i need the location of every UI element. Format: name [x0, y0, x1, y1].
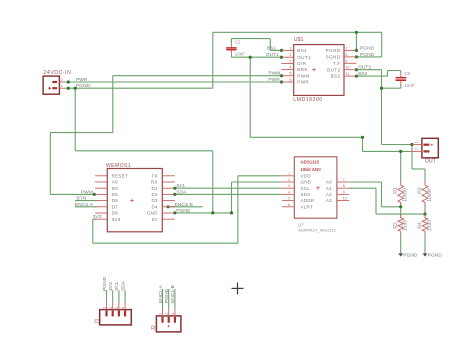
wire ENCS A stub at WEMOS D7 [75, 206, 97, 208]
pin WEMOS1 right pin TX [162, 175, 175, 177]
pin U$1 pin 11 BS2 [344, 75, 356, 77]
junction U$1 pin8 [355, 55, 358, 58]
resistor R3 10k00 [422, 181, 428, 205]
junction OUT2/C3 tee [380, 87, 383, 90]
wire BS2 up [387, 71, 389, 77]
pin ADS pin 8 A1 [337, 187, 349, 189]
pin WEMOS1 right pin D1 [162, 187, 175, 189]
svg-text:8: 8 [345, 53, 347, 57]
svg-text:10k00: 10k00 [403, 188, 409, 202]
wire PGND branch down [74, 88, 76, 151]
svg-text:3V3: 3V3 [112, 217, 121, 222]
svg-text:PGND: PGND [428, 252, 443, 258]
svg-text:PGND: PGND [76, 83, 91, 89]
wire J1 wire x=106.5 [106, 290, 108, 302]
wire J2 wire x=162.5 [162, 289, 164, 308]
svg-text:2: 2 [61, 78, 63, 82]
svg-text:ENC1-A: ENC1-A [158, 284, 164, 303]
svg-text:PGND: PGND [164, 288, 170, 303]
svg-text:5: 5 [288, 197, 290, 201]
svg-text:2: 2 [109, 307, 113, 309]
svg-text:OUT2: OUT2 [327, 67, 341, 72]
wire R2 to PGND symbol [400, 234, 402, 254]
svg-text:SDA: SDA [120, 280, 126, 291]
svg-text:10: 10 [345, 66, 349, 70]
wire BS2 to C3 top [388, 70, 401, 72]
wire A1 vertical [375, 188, 377, 214]
connector J2 [156, 316, 181, 332]
wire PGND drop to U$1 pin8 [381, 32, 383, 57]
pin U$1 pin 3 DIR [281, 63, 293, 65]
svg-text:4: 4 [121, 307, 125, 309]
wire BS1 vertical [269, 39, 271, 51]
svg-text:PGND: PGND [326, 48, 341, 53]
origin cross U$1 [312, 69, 316, 71]
svg-text:J2: J2 [151, 325, 157, 331]
wire J1 wire x=118.9 [118, 290, 120, 302]
wire PWM vertical [112, 76, 114, 133]
wire PGND drop to U$1 pin7 [355, 32, 357, 50]
pin ADS pin 3 SCL [282, 187, 294, 189]
pin ADS pin 6 ALRT [282, 206, 294, 208]
ADC U? ADS1115 [294, 157, 337, 218]
resistor R1 10k00 [398, 181, 404, 205]
pin J2 pin 3 [162, 308, 164, 316]
pin J1 pin 3 [118, 303, 120, 310]
junction OUT1 corner [361, 136, 364, 139]
svg-text:ENC1-B: ENC1-B [170, 285, 176, 303]
pin R2 top lead [400, 216, 402, 218]
svg-text:10k00: 10k00 [427, 188, 433, 202]
wire PGND up to ADS GND [231, 182, 233, 213]
pin WEMOS1 left pin A0 [95, 181, 107, 183]
pin WEMOS1 right pin RX [162, 181, 175, 183]
svg-text:1500: 1500 [403, 220, 409, 231]
pin ADS pin 1 VDD [282, 175, 294, 177]
wire BS2 from U$1 pin11 [356, 75, 387, 77]
svg-text:SDA: SDA [176, 189, 187, 195]
wire PGND top rail [213, 31, 382, 33]
svg-text:9: 9 [345, 59, 347, 63]
wire R1-R2 midpoint link [400, 205, 402, 215]
svg-text:BTN: BTN [77, 196, 87, 202]
svg-text:OUT1: OUT1 [297, 55, 311, 60]
pin J1 pin 4 [124, 303, 126, 310]
motor driver U$1 LMD18200 [294, 45, 344, 96]
svg-text:R4: R4 [418, 222, 424, 229]
junction PGND at 24VDC pin1 [67, 87, 70, 90]
pin WEMOS1 left pin D0 [95, 187, 107, 189]
pin WEMOS1 left pin D8 [95, 212, 107, 214]
svg-text:A3: A3 [326, 198, 332, 203]
svg-text:A0: A0 [112, 180, 118, 185]
svg-text:2: 2 [165, 313, 169, 315]
svg-text:LMD18200: LMD18200 [293, 97, 322, 103]
svg-text:ALRT: ALRT [301, 204, 313, 209]
junction U$1 pin10 [355, 68, 358, 71]
origin mark J2 [168, 325, 170, 327]
wire J1 wire x=125.1 [124, 290, 126, 302]
pin WEMOS1 right pin D2 [162, 193, 175, 195]
pin OUT pin 2 [410, 150, 422, 152]
svg-text:5V: 5V [152, 217, 158, 222]
pin U$1 pin 5 PWM [281, 75, 293, 77]
pin U$1 pin 7 PGND [344, 49, 356, 51]
wire OUT1 down to R1 [400, 151, 402, 181]
svg-text:BS2: BS2 [331, 74, 341, 79]
svg-text:ADAFRUIT_ADS1115: ADAFRUIT_ADS1115 [298, 227, 336, 232]
origin mark OUT [431, 144, 433, 146]
svg-text:3: 3 [159, 313, 163, 315]
wire PWM horizontal [50, 132, 113, 134]
pin J2 pin 1 [174, 308, 176, 316]
svg-text:R3: R3 [418, 187, 424, 194]
wire C3 bottom to OUT2 vertical [382, 87, 401, 89]
svg-text:1500: 1500 [427, 220, 433, 231]
pin ADS pin 2 GND [282, 181, 294, 183]
pin WEMOS1 left pin 3V3 [95, 218, 107, 220]
svg-text:D8: D8 [112, 211, 118, 216]
svg-text:ENCS B: ENCS B [175, 202, 193, 208]
svg-text:C3: C3 [404, 71, 410, 76]
svg-text:5: 5 [290, 72, 292, 76]
svg-text:10: 10 [343, 197, 347, 201]
pin WEMOS1 left pin D5 [95, 193, 107, 195]
capacitor C3 [396, 71, 407, 89]
wire OUT2 into OUT pin1 [382, 144, 413, 146]
svg-text:OUT2: OUT2 [358, 65, 371, 71]
pin J1 pin 2 [112, 303, 114, 310]
wire OUT1 drop [362, 137, 364, 151]
resistor R2 1500 [398, 214, 404, 234]
wire J2 wire x=174.9 [174, 289, 176, 308]
origin cross ADS [316, 187, 320, 189]
svg-text:OUT1: OUT1 [266, 52, 279, 58]
svg-text:PGND: PGND [403, 252, 418, 258]
svg-text:U$1: U$1 [294, 37, 304, 43]
wire SDA WEMOS D2 to ADS SDA [175, 193, 282, 195]
module WEMOS1 [107, 169, 162, 232]
pin U$1 pin 8 SGND [344, 56, 356, 58]
wire PGND into ADS pin2 [232, 181, 282, 183]
svg-text:2: 2 [415, 148, 419, 150]
junction PWR at U$1 pin6 [280, 80, 283, 83]
pin WEMOS1 right pin D4 [162, 206, 175, 208]
junction PGND branch [74, 87, 77, 90]
wire PGND horizontal from 24VDC pin1 [66, 87, 213, 89]
svg-text:7: 7 [345, 46, 347, 50]
pin 24VDC-IN pin 2 [59, 81, 65, 83]
svg-text:24VDC-IN: 24VDC-IN [43, 70, 71, 76]
wire PWM into U$1 pin5 [113, 75, 282, 77]
wire OUT2 from U$1 pin10 [356, 69, 381, 71]
connector OUT [422, 138, 438, 158]
svg-text:VDD: VDD [301, 173, 312, 178]
junction A0/R1/R2 tee [399, 205, 402, 208]
svg-text:1: 1 [103, 307, 107, 309]
wire ENCS B stub at WEMOS D4 [168, 206, 203, 208]
svg-text:D0: D0 [112, 186, 118, 191]
svg-text:J1: J1 [94, 318, 100, 324]
svg-text:D1: D1 [152, 186, 158, 191]
svg-text:6: 6 [288, 203, 290, 207]
capacitor C2 [226, 39, 236, 58]
svg-text:3: 3 [290, 60, 292, 64]
svg-text:PGND: PGND [360, 45, 375, 51]
pin R3 bottom lead [424, 203, 426, 206]
wire 3V3 bottom horizontal [93, 242, 238, 244]
junction SDA at WEMOS D2 [173, 193, 176, 196]
svg-text:3: 3 [115, 307, 119, 309]
svg-text:A1: A1 [326, 186, 332, 191]
junction PGND rail tee [355, 31, 358, 34]
wire OUT1 long horizontal [250, 136, 362, 138]
junction SCL at WEMOS D1 [173, 187, 176, 190]
resistor R4 1500 [422, 214, 428, 234]
junction OUT1 tee [249, 56, 252, 59]
wire 3V3 from WEMOS 3V3 pin [93, 218, 97, 220]
junction PWR at 24VDC pin2 [67, 80, 70, 83]
svg-text:10nF: 10nF [404, 83, 415, 88]
wire A1 from ADS pin8 [349, 187, 376, 189]
svg-text:PGND: PGND [102, 276, 108, 291]
junction PWM at U$1 pin5 [280, 74, 283, 77]
wire OUT2 vertical down right side [381, 70, 383, 145]
svg-text:PWM: PWM [297, 73, 310, 78]
svg-text:D5: D5 [112, 192, 118, 197]
svg-text:PWR: PWR [268, 77, 280, 83]
polarity + mark 24VDC-IN pin1 [48, 87, 51, 89]
svg-text:PGND: PGND [176, 208, 191, 214]
junction ENCS B at WEMOS D4 [166, 205, 169, 208]
wire PWM vertical left [49, 133, 51, 195]
pin U$1 pin 2 OUT1 [281, 56, 293, 58]
junction OUT1 at U$1 pin2 [280, 56, 283, 59]
svg-text:1: 1 [288, 172, 290, 176]
svg-text:4: 4 [290, 66, 292, 70]
svg-text:BS1: BS1 [267, 45, 277, 51]
pin WEMOS1 left pin D7 [95, 206, 107, 208]
svg-text:1: 1 [171, 313, 175, 315]
junction PGND at WEMOS GND [173, 211, 176, 214]
svg-text:9: 9 [343, 190, 345, 194]
wire OUT2 down to R3 [411, 145, 413, 170]
svg-text:PGND: PGND [360, 52, 375, 58]
junction OUT2/OUT pin1 tee [410, 143, 413, 146]
svg-text:8: 8 [343, 184, 345, 188]
svg-text:2: 2 [288, 178, 290, 182]
wire 3V3 vertical down [92, 219, 94, 243]
wire 3V3 vertical up to ADS VDD [237, 176, 239, 243]
wire BS1 into U$1 pin1 [270, 49, 281, 51]
pin WEMOS1 right pin 5V [162, 218, 175, 220]
connector J1 [100, 310, 132, 325]
pin R1 bottom lead [400, 203, 402, 206]
svg-text:6: 6 [290, 78, 292, 82]
pin ADS pin 7 A0 [337, 181, 349, 183]
wire SCL WEMOS D1 to ADS SCL [175, 187, 282, 189]
pin ADS pin 9 A2 [337, 193, 349, 195]
svg-text:4: 4 [288, 190, 290, 194]
pin WEMOS1 right pin GND [162, 212, 175, 214]
pin OUT pin 1 [412, 144, 422, 146]
svg-text:3V3: 3V3 [93, 214, 102, 220]
svg-text:1: 1 [61, 84, 63, 88]
wire 3V3 into ADS pin1 [238, 175, 282, 177]
svg-text:D4: D4 [152, 204, 158, 209]
svg-text:DIR: DIR [297, 61, 307, 66]
pin WEMOS1 left pin RESET [95, 175, 107, 177]
pin U$1 pin 4 BRK [281, 69, 293, 71]
connector X1 24VDC-IN [43, 76, 59, 94]
svg-text:R1: R1 [393, 187, 399, 194]
pin J1 pin 1 [106, 303, 108, 310]
wire A0 from ADS pin7 [349, 181, 381, 183]
pin 24VDC-IN pin 1 [59, 87, 65, 89]
pin ADS pin 4 SDA [282, 193, 294, 195]
svg-text:11: 11 [345, 72, 349, 76]
svg-text:R2: R2 [393, 222, 399, 229]
svg-text:PWR: PWR [297, 80, 309, 85]
svg-text:RX: RX [151, 180, 158, 185]
svg-text:D6: D6 [112, 198, 118, 203]
svg-text:A0: A0 [326, 180, 332, 185]
svg-text:SCL: SCL [301, 186, 311, 191]
svg-text:GND: GND [301, 180, 312, 185]
wire OUT2 into R3 top [424, 169, 426, 181]
svg-text:PWM: PWM [268, 71, 280, 77]
junction BS1 at U$1 pin1 [280, 49, 283, 52]
wire A0 to R1/R2 junction [382, 206, 401, 208]
svg-text:PWM: PWM [81, 189, 93, 195]
svg-text:1: 1 [290, 46, 292, 50]
junction PGND tee [211, 211, 214, 214]
wire OUT1 from C2 bottom to U$1 pin2 [231, 56, 281, 58]
wire BS1 from C2 top [231, 38, 270, 40]
junction A1/R3/R4 tee [423, 213, 426, 216]
wire A1 to R3/R4 junction [376, 213, 425, 215]
svg-text:TX: TX [152, 173, 158, 178]
svg-text:BRK: BRK [297, 67, 308, 72]
svg-text:SGND: SGND [326, 55, 341, 60]
junction PWM at WEMOS D5 [93, 193, 96, 196]
svg-text:7: 7 [343, 178, 345, 182]
pin U$1 pin 1 BS1 [281, 49, 293, 51]
wire R3-R4 midpoint link [424, 205, 426, 215]
junction U$1 pin11 [355, 75, 358, 78]
svg-text:BS1: BS1 [297, 48, 307, 53]
wire PGND branch horizontal [75, 150, 213, 152]
junction U$1 pin7 [355, 49, 358, 52]
svg-text:BS2: BS2 [358, 71, 368, 77]
wire BTN stub at WEMOS D6 [75, 200, 97, 202]
wire OUT1 into OUT pin2 [363, 150, 410, 152]
wire OUT1 long vertical [249, 57, 251, 137]
wire J2 wire x=168.7 [168, 289, 170, 308]
wire R4 to PGND symbol [424, 234, 426, 254]
wire PWR 24VDC pin2 to U$1 pin6 [66, 81, 282, 83]
svg-text:C2: C2 [235, 40, 241, 45]
wire A0 vertical [381, 182, 383, 207]
svg-text:D2: D2 [152, 192, 158, 197]
wire PWM into WEMOS D5 [50, 193, 94, 195]
pin U$1 pin 6 PWR [281, 81, 293, 83]
svg-text:ADS1115: ADS1115 [301, 160, 320, 165]
svg-text:OUT: OUT [425, 158, 437, 164]
svg-text:WEMOS1: WEMOS1 [106, 163, 131, 169]
svg-text:1: 1 [415, 141, 419, 143]
svg-text:ADDR: ADDR [301, 198, 315, 203]
wire PGND vertical up to top rail [212, 32, 214, 88]
wire J1 wire x=112.7 [112, 290, 114, 302]
pin U$1 pin 10 OUT2 [344, 69, 356, 71]
junction PGND/ADS GND tee [230, 211, 233, 214]
svg-text:D3: D3 [152, 198, 158, 203]
svg-text:GND: GND [147, 211, 158, 216]
junction OUT1/R1 tee [399, 150, 402, 153]
svg-text:SCL: SCL [176, 183, 186, 189]
ground symbol PGND (below R4) [423, 253, 428, 256]
svg-text:T.F: T.F [333, 61, 341, 66]
ground symbol PGND (below R2) [398, 253, 403, 256]
svg-text:ENCS A: ENCS A [75, 202, 94, 208]
pin WEMOS1 left pin D6 [95, 200, 107, 202]
pin U$1 pin 9 T.F [344, 62, 356, 64]
sheet origin crosshair [232, 282, 244, 294]
pin J2 pin 2 [168, 308, 170, 316]
wire OUT2 jog right [412, 168, 425, 170]
wire PGND WEMOS GND horizontal [175, 212, 232, 214]
svg-text:2: 2 [290, 53, 292, 57]
svg-text:SCL: SCL [114, 281, 120, 291]
svg-text:PWR: PWR [76, 77, 88, 83]
svg-text:RESET: RESET [112, 173, 128, 178]
wire PGND branch down to WEMOS GND row [212, 151, 214, 213]
svg-text:3V3: 3V3 [108, 282, 114, 291]
svg-text:10nF: 10nF [235, 51, 246, 56]
svg-text:3: 3 [288, 184, 290, 188]
svg-text:16bit ADC: 16bit ADC [301, 167, 323, 172]
pin ADS pin 5 ADDR [282, 200, 294, 202]
svg-text:A2: A2 [326, 192, 332, 197]
svg-text:D7: D7 [112, 204, 118, 209]
pin R4 top lead [424, 216, 426, 218]
pin ADS pin 10 A3 [337, 200, 349, 202]
wire PGND pin8 horizontal [356, 56, 381, 58]
origin cross WEMOS1 [130, 200, 134, 202]
pin WEMOS1 right pin D3 [162, 200, 175, 202]
svg-text:SDA: SDA [301, 192, 311, 197]
